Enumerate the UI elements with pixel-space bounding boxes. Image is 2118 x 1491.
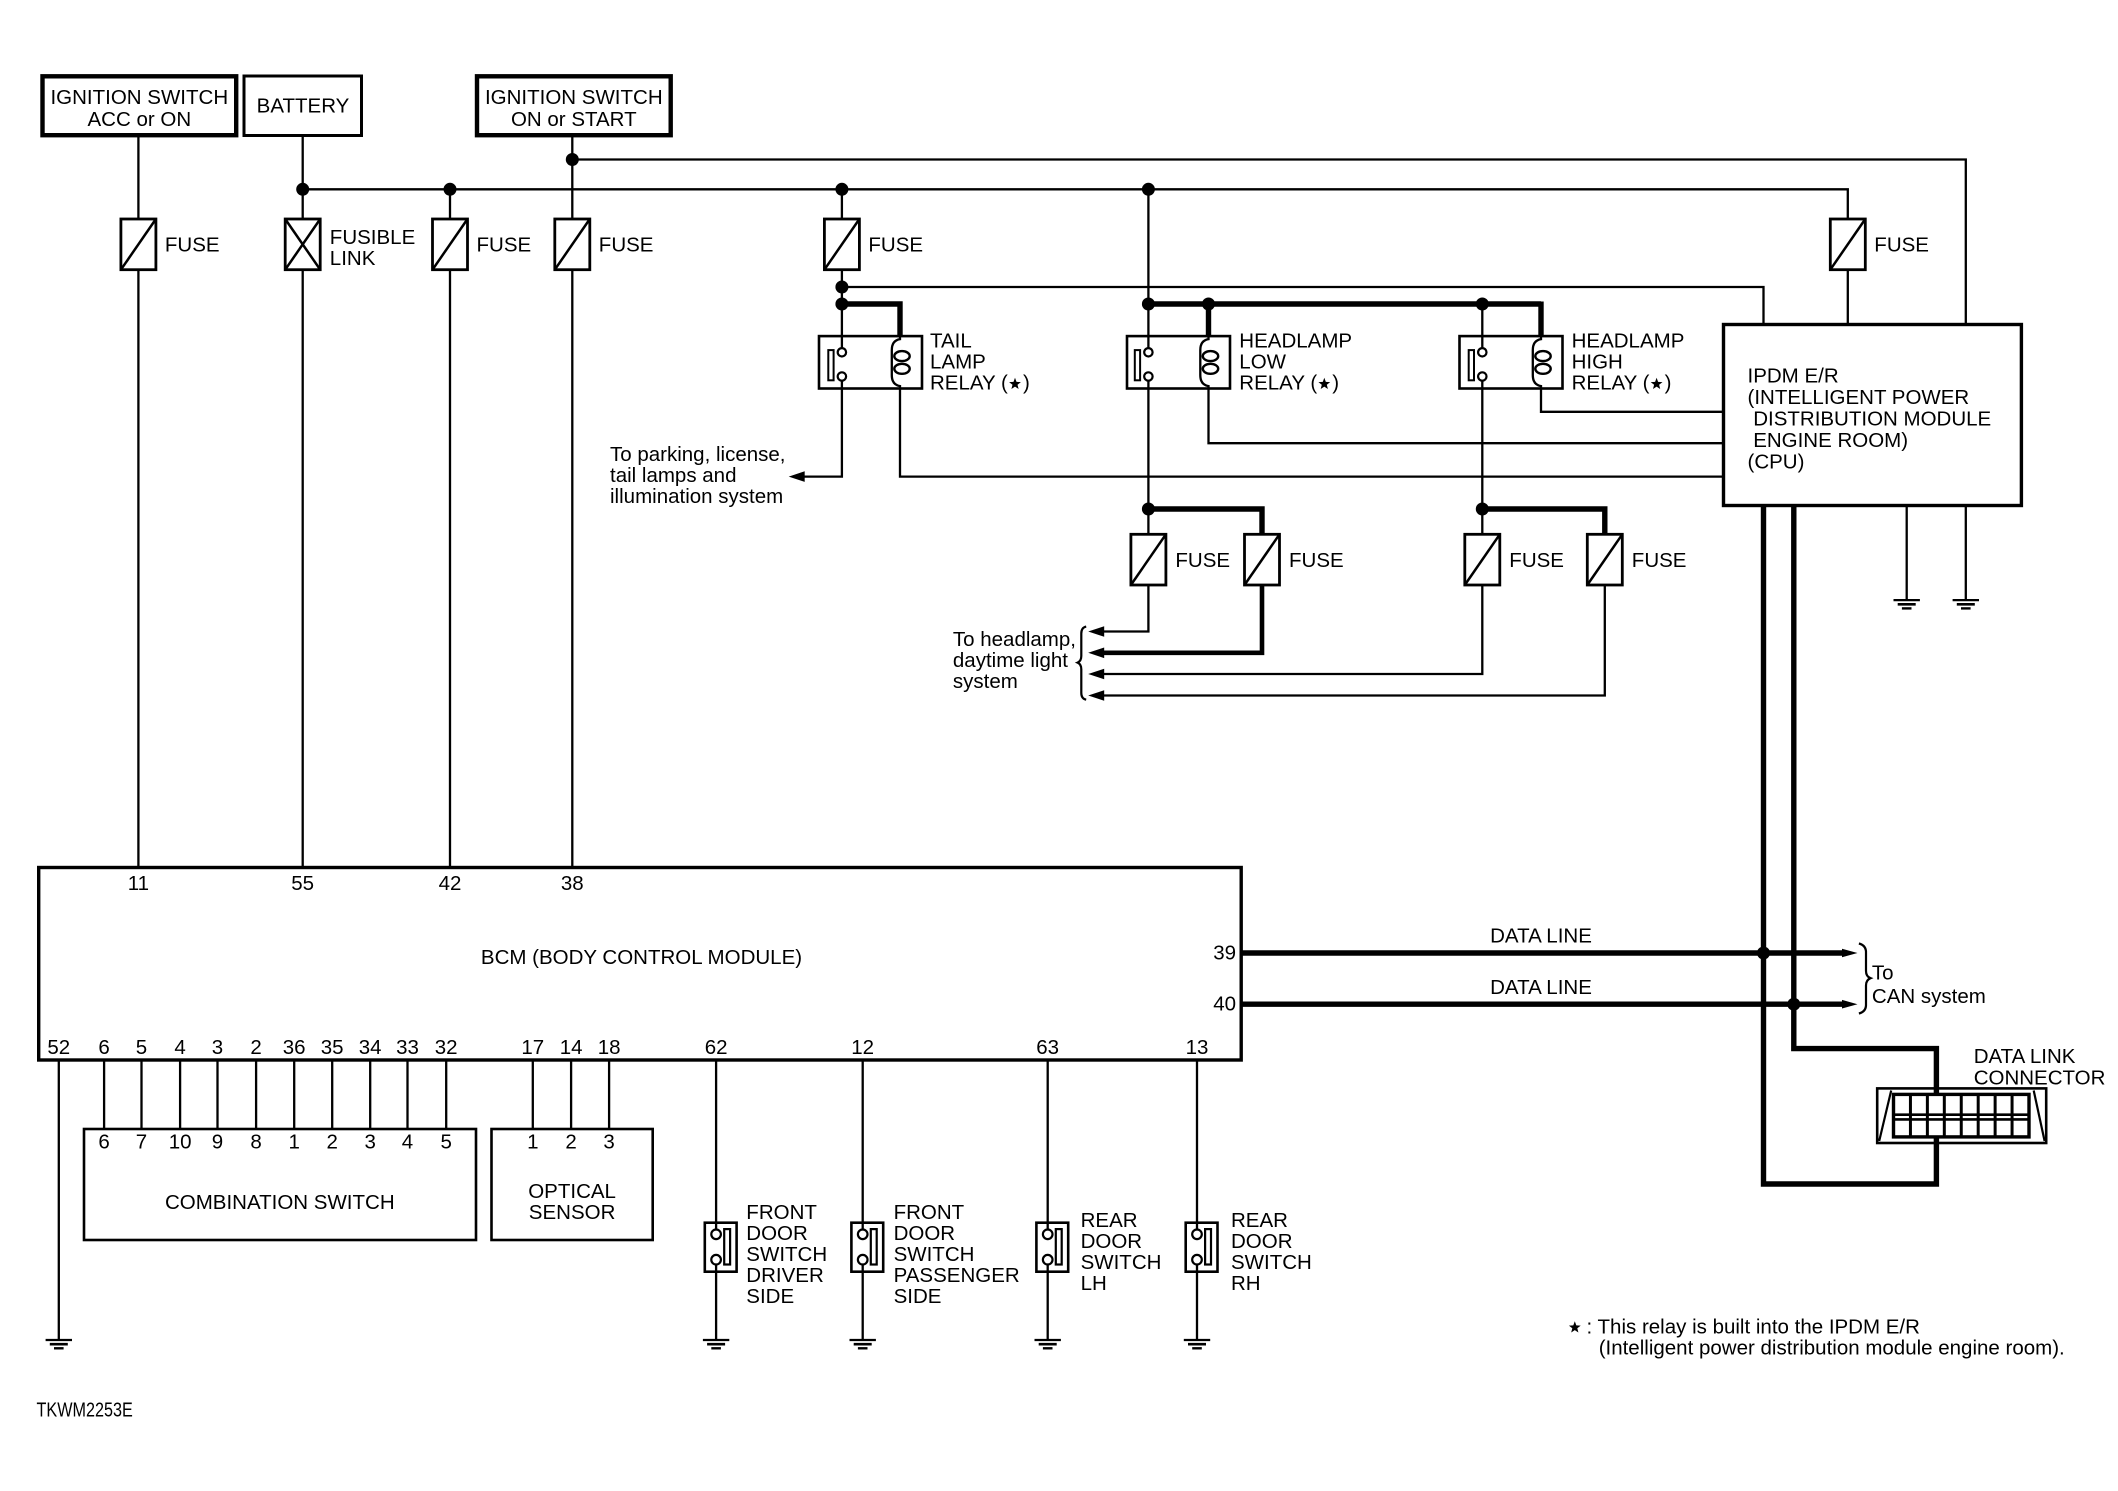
connector: DATA LINK CONNECTOR (16-pin) xyxy=(1877,1088,2046,1143)
wire: fusible link to BCM pin 55 xyxy=(302,270,304,868)
svg-text:18: 18 xyxy=(598,1036,621,1059)
svg-text:DATA LINE: DATA LINE xyxy=(1490,925,1592,948)
svg-text:34: 34 xyxy=(359,1036,382,1059)
wire: DATA LINE from BCM pin 40 (heavy) xyxy=(1241,1002,1843,1007)
svg-text:RELAY (: RELAY ( xyxy=(1572,372,1650,395)
svg-text:daytime light: daytime light xyxy=(953,649,1068,672)
fuse F1 (ignition ACC) xyxy=(121,219,156,270)
svg-text:DISTRIBUTION MODULE: DISTRIBUTION MODULE xyxy=(1753,408,1991,431)
ground: IPDM ground 2 xyxy=(1953,599,1979,601)
svg-text:To: To xyxy=(1872,962,1894,985)
arrow: headlamp feed 3 xyxy=(1088,669,1104,680)
power source box: IGNITION SWITCH ACC or ON xyxy=(43,76,237,135)
svg-text:FUSIBLE: FUSIBLE xyxy=(330,226,415,249)
fuse F9 (headlamp high RH) xyxy=(1587,534,1622,585)
svg-text:LH: LH xyxy=(1081,1272,1107,1295)
svg-text:DOOR: DOOR xyxy=(1081,1230,1143,1253)
svg-text:FUSE: FUSE xyxy=(868,234,923,257)
wire: front door switch driver to ground xyxy=(715,1272,717,1340)
wire: rear door switch LH to ground xyxy=(1047,1272,1049,1340)
svg-text:1: 1 xyxy=(288,1131,299,1154)
wire: battery feed down to fusible link xyxy=(302,135,304,219)
svg-text:To headlamp,: To headlamp, xyxy=(953,628,1076,651)
svg-text:RELAY (: RELAY ( xyxy=(1239,372,1317,395)
svg-text:FUSE: FUSE xyxy=(477,234,532,257)
svg-text:DATA LINE: DATA LINE xyxy=(1490,976,1592,999)
wire: heavy branch to high beam fuse F9 xyxy=(1482,509,1605,534)
arrow: headlamp feed 2 xyxy=(1088,648,1104,659)
svg-text:SWITCH: SWITCH xyxy=(1231,1251,1312,1274)
wire: bus A (ignition on/start) to IPDM xyxy=(572,160,1966,325)
svg-text:RELAY (: RELAY ( xyxy=(930,372,1008,395)
wire: fuse F4 down to tail lamp relay switch xyxy=(841,270,843,336)
node: tail feed junction (thin sense line) xyxy=(835,281,848,294)
wires: BCM pins to optical sensor xyxy=(532,1060,534,1129)
wire: headlamp low relay switch output down to fuses xyxy=(1147,389,1149,535)
svg-text:33: 33 xyxy=(396,1036,419,1059)
ground: BCM pin 52 ground xyxy=(46,1339,72,1341)
wire: BCM pin 52 to ground xyxy=(58,1060,60,1340)
node: high beam fuse pair junction xyxy=(1476,503,1489,516)
svg-text:CONNECTOR: CONNECTOR xyxy=(1974,1067,2106,1090)
svg-text:FUSE: FUSE xyxy=(1175,549,1230,572)
wire: tail relay coil return to IPDM xyxy=(900,389,1724,477)
svg-text:ENGINE ROOM): ENGINE ROOM) xyxy=(1753,429,1908,452)
module box: IPDM E/R (CPU) xyxy=(1724,325,2022,506)
node: headlamp low relay tap on bus B xyxy=(1142,183,1155,196)
ground: rear door switch LH xyxy=(1035,1339,1061,1341)
wire: CAN line 2 heavy from IPDM to data link connector xyxy=(1794,506,1937,1095)
svg-text:SWITCH: SWITCH xyxy=(746,1243,827,1266)
relay: HEADLAMP LOW RELAY xyxy=(1127,336,1230,388)
svg-text:DOOR: DOOR xyxy=(1231,1230,1293,1253)
svg-text:COMBINATION SWITCH: COMBINATION SWITCH xyxy=(165,1191,395,1214)
switch: REAR DOOR SWITCH LH xyxy=(1036,1223,1068,1272)
svg-text:14: 14 xyxy=(560,1036,583,1059)
svg-text:55: 55 xyxy=(291,872,314,895)
brace: CAN system group xyxy=(1859,944,1871,1014)
power source box: IGNITION SWITCH ON or START xyxy=(477,76,671,135)
wire: heavy drop to headlamp low relay coil xyxy=(1206,302,1211,337)
node: headlamp coil bus start junction xyxy=(1142,298,1155,311)
svg-text:REAR: REAR xyxy=(1081,1209,1138,1232)
svg-text:1: 1 xyxy=(527,1131,538,1154)
wire: IGN ON/START feed down to fuse F3 xyxy=(571,135,573,219)
node: headlamp high relay switch tap xyxy=(1476,298,1489,311)
svg-text:: This relay is built into the: : This relay is built into the IPDM E/R xyxy=(1587,1316,1920,1339)
arrow: headlamp feed 4 xyxy=(1088,690,1104,701)
arrow: headlamp feed 1 xyxy=(1088,626,1104,637)
svg-text:REAR: REAR xyxy=(1231,1209,1288,1232)
svg-text:FUSE: FUSE xyxy=(1289,549,1344,572)
svg-text:6: 6 xyxy=(98,1131,109,1154)
svg-text:system: system xyxy=(953,670,1018,693)
svg-text:4: 4 xyxy=(402,1131,413,1154)
relay: HEADLAMP HIGH RELAY xyxy=(1460,336,1563,388)
svg-text:SWITCH: SWITCH xyxy=(894,1243,975,1266)
node: battery junction on bus B xyxy=(296,183,309,196)
svg-text:36: 36 xyxy=(283,1036,306,1059)
svg-text:13: 13 xyxy=(1186,1036,1209,1059)
svg-text:HEADLAMP: HEADLAMP xyxy=(1572,330,1685,353)
fuse F7 (headlamp low RH) xyxy=(1245,534,1280,585)
wire: front door switch passenger to ground xyxy=(862,1272,864,1340)
svg-text:5: 5 xyxy=(440,1131,451,1154)
svg-text:HIGH: HIGH xyxy=(1572,351,1623,374)
svg-text:9: 9 xyxy=(212,1131,223,1154)
svg-text:BCM (BODY CONTROL MODULE): BCM (BODY CONTROL MODULE) xyxy=(481,946,802,969)
svg-text:8: 8 xyxy=(250,1131,261,1154)
wire: tail relay switch output to parking lamps arrow xyxy=(803,389,842,477)
module box: COMBINATION SWITCH xyxy=(84,1129,476,1240)
node: CAN junction with data line 39 xyxy=(1757,947,1770,960)
wire: IPDM ground 1 xyxy=(1906,506,1908,601)
wire: drop to headlamp high relay switch xyxy=(1481,304,1483,336)
brace: headlamp system group xyxy=(1078,627,1087,700)
svg-text:39: 39 xyxy=(1213,942,1236,965)
svg-text:To parking, license,: To parking, license, xyxy=(610,443,785,466)
wire: CAN line 1 heavy from IPDM to data link connector xyxy=(1764,506,1937,1184)
svg-text:ACC or ON: ACC or ON xyxy=(87,108,191,131)
svg-text:3: 3 xyxy=(603,1131,614,1154)
svg-text:63: 63 xyxy=(1036,1036,1059,1059)
svg-text:BATTERY: BATTERY xyxy=(257,95,350,118)
wire: bus B (battery) across top xyxy=(303,189,1848,219)
wire: fuse F5 to IPDM top xyxy=(1847,270,1849,325)
svg-text:CAN system: CAN system xyxy=(1872,985,1986,1008)
fuse F3 (ignition ON/START) xyxy=(555,219,590,270)
module box: OPTICAL SENSOR xyxy=(492,1129,653,1240)
fuse F6 (headlamp low LH) xyxy=(1131,534,1166,585)
power source box: BATTERY xyxy=(244,76,362,136)
svg-text:38: 38 xyxy=(561,872,584,895)
wire: BCM pin 12 to front door switch passenger side xyxy=(862,1060,864,1223)
svg-text:17: 17 xyxy=(521,1036,544,1059)
node: tail lamp fuse tap on bus B xyxy=(835,183,848,196)
svg-text:FUSE: FUSE xyxy=(1509,549,1564,572)
wire: fuse F9 output to headlamp arrow 4 xyxy=(1103,585,1605,696)
wire: fuse F7 output to headlamp arrow 2 (heavy) xyxy=(1103,585,1262,653)
svg-text:2: 2 xyxy=(565,1131,576,1154)
svg-text:52: 52 xyxy=(47,1036,70,1059)
node: fuse F2 tap on bus B xyxy=(444,183,457,196)
switch: REAR DOOR SWITCH RH xyxy=(1186,1223,1218,1272)
fusible link FL xyxy=(285,219,320,270)
wire: BCM pin 13 to rear door switch RH xyxy=(1196,1060,1198,1223)
svg-text:): ) xyxy=(1332,372,1339,395)
wire: IGN ACC feed down to fuse F1 xyxy=(137,135,139,219)
wire: BCM pin 62 to front door switch driver side xyxy=(715,1060,717,1223)
svg-text:10: 10 xyxy=(169,1131,192,1154)
svg-text:illumination system: illumination system xyxy=(610,485,783,508)
svg-text:tail lamps and: tail lamps and xyxy=(610,464,736,487)
wires: BCM pins to combination switch xyxy=(103,1060,105,1129)
svg-text:SIDE: SIDE xyxy=(894,1285,942,1308)
node: headlamp low coil tap xyxy=(1202,298,1215,311)
svg-text:DOOR: DOOR xyxy=(746,1222,808,1245)
svg-text:FUSE: FUSE xyxy=(1632,549,1687,572)
svg-text:ON or START: ON or START xyxy=(511,108,637,131)
svg-text:6: 6 xyxy=(98,1036,109,1059)
svg-text:11: 11 xyxy=(128,872,149,895)
switch: FRONT DOOR SWITCH DRIVER SIDE xyxy=(705,1223,737,1272)
node: tail relay coil feed junction xyxy=(835,298,848,311)
fuse F4 (tail lamp relay feed) xyxy=(824,219,859,270)
wire: bus B tap down to fuse F2 xyxy=(449,189,451,219)
ground: front door switch passenger side xyxy=(850,1339,876,1341)
wire: fuse F6 output to headlamp arrow 1 xyxy=(1103,585,1148,632)
svg-text:3: 3 xyxy=(212,1036,223,1059)
svg-text:TAIL: TAIL xyxy=(930,330,972,353)
wire: heavy coil bus for headlamp relays xyxy=(1148,301,1541,306)
wire: fuse F1 to BCM pin 11 xyxy=(137,270,139,868)
wire: headlamp low relay coil return to IPDM xyxy=(1209,389,1724,444)
wire: headlamp high relay coil return to IPDM xyxy=(1541,389,1724,412)
wire: heavy drop to headlamp high relay coil xyxy=(1538,302,1543,337)
wire: DATA LINE from BCM pin 39 (heavy) xyxy=(1241,950,1843,955)
svg-text:SENSOR: SENSOR xyxy=(529,1201,616,1224)
relay: TAIL LAMP RELAY xyxy=(819,336,922,388)
module box: BCM (BODY CONTROL MODULE) xyxy=(39,868,1242,1061)
svg-text:SWITCH: SWITCH xyxy=(1081,1251,1162,1274)
svg-text:LOW: LOW xyxy=(1239,351,1286,374)
svg-text:(INTELLIGENT POWER: (INTELLIGENT POWER xyxy=(1748,386,1970,409)
wire: heavy branch to low beam fuse F7 xyxy=(1148,509,1262,534)
wire: fuse F3 to BCM pin 38 xyxy=(571,270,573,868)
ground: IPDM ground 1 xyxy=(1894,599,1920,601)
svg-text:SIDE: SIDE xyxy=(746,1285,794,1308)
svg-text:RH: RH xyxy=(1231,1272,1261,1295)
ground: rear door switch RH xyxy=(1184,1339,1210,1341)
switch: FRONT DOOR SWITCH PASSENGER SIDE xyxy=(851,1223,883,1272)
svg-text:12: 12 xyxy=(851,1036,874,1059)
svg-text:2: 2 xyxy=(250,1036,261,1059)
svg-text:LAMP: LAMP xyxy=(930,351,986,374)
svg-text:40: 40 xyxy=(1213,993,1236,1016)
svg-text:HEADLAMP: HEADLAMP xyxy=(1239,330,1352,353)
arrow: data line 40 to CAN xyxy=(1842,1000,1858,1009)
wire: thin sense line from tail feed to IPDM xyxy=(842,287,1764,325)
svg-text:OPTICAL: OPTICAL xyxy=(528,1180,616,1203)
svg-text:2: 2 xyxy=(326,1131,337,1154)
fuse F2 (battery) xyxy=(433,219,468,270)
svg-text:LINK: LINK xyxy=(330,247,376,270)
node: IGN ON/START junction on bus A xyxy=(566,153,579,166)
svg-text:FUSE: FUSE xyxy=(599,234,654,257)
arrow: to parking/license/tail lamps xyxy=(789,471,805,482)
svg-text:PASSENGER: PASSENGER xyxy=(894,1264,1020,1287)
svg-text:(CPU): (CPU) xyxy=(1748,451,1805,474)
wire: heavy feed to tail lamp relay coil xyxy=(842,304,900,336)
svg-text:TKWM2253E: TKWM2253E xyxy=(37,1398,133,1421)
wire: bus B tap down to tail lamp fuse F4 xyxy=(841,189,843,219)
svg-text:FUSE: FUSE xyxy=(1874,234,1929,257)
svg-text:42: 42 xyxy=(439,872,462,895)
svg-text:): ) xyxy=(1023,372,1030,395)
wire: headlamp high relay switch output down to fuses xyxy=(1481,389,1483,535)
svg-text:4: 4 xyxy=(174,1036,185,1059)
svg-text:DATA LINK: DATA LINK xyxy=(1974,1045,2076,1068)
svg-text:): ) xyxy=(1665,372,1672,395)
wire: rear door switch RH to ground xyxy=(1196,1272,1198,1340)
fuse F8 (headlamp high LH) xyxy=(1465,534,1500,585)
fuse F5 (IPDM battery feed, top right) xyxy=(1830,219,1865,270)
arrow: data line 39 to CAN xyxy=(1842,949,1858,958)
svg-text:IPDM E/R: IPDM E/R xyxy=(1748,365,1839,388)
wire: headlamp low relay switch feed from bus B xyxy=(1147,189,1149,336)
svg-text:IGNITION SWITCH: IGNITION SWITCH xyxy=(485,86,663,109)
svg-text:62: 62 xyxy=(705,1036,728,1059)
svg-text:(Intelligent power distributio: (Intelligent power distribution module e… xyxy=(1599,1337,2065,1360)
svg-text:DOOR: DOOR xyxy=(894,1222,956,1245)
svg-text:IGNITION SWITCH: IGNITION SWITCH xyxy=(50,86,228,109)
ground: front door switch driver side xyxy=(703,1339,729,1341)
svg-text:7: 7 xyxy=(136,1131,147,1154)
svg-text:5: 5 xyxy=(136,1036,147,1059)
svg-text:FUSE: FUSE xyxy=(165,234,220,257)
footnote: relay built into IPDM E/R xyxy=(1569,1321,1581,1332)
wire: fuse F8 output to headlamp arrow 3 xyxy=(1103,585,1482,674)
svg-text:3: 3 xyxy=(364,1131,375,1154)
node: CAN junction with data line 40 xyxy=(1787,998,1800,1011)
node: low beam fuse pair junction xyxy=(1142,503,1155,516)
wire: BCM pin 63 to rear door switch LH xyxy=(1047,1060,1049,1223)
svg-text:FRONT: FRONT xyxy=(746,1201,817,1224)
svg-text:32: 32 xyxy=(435,1036,458,1059)
svg-text:FRONT: FRONT xyxy=(894,1201,965,1224)
wire: fuse F2 to BCM pin 42 xyxy=(449,270,451,868)
wire: IPDM ground 2 xyxy=(1965,506,1967,601)
svg-text:DRIVER: DRIVER xyxy=(746,1264,823,1287)
svg-text:35: 35 xyxy=(321,1036,344,1059)
